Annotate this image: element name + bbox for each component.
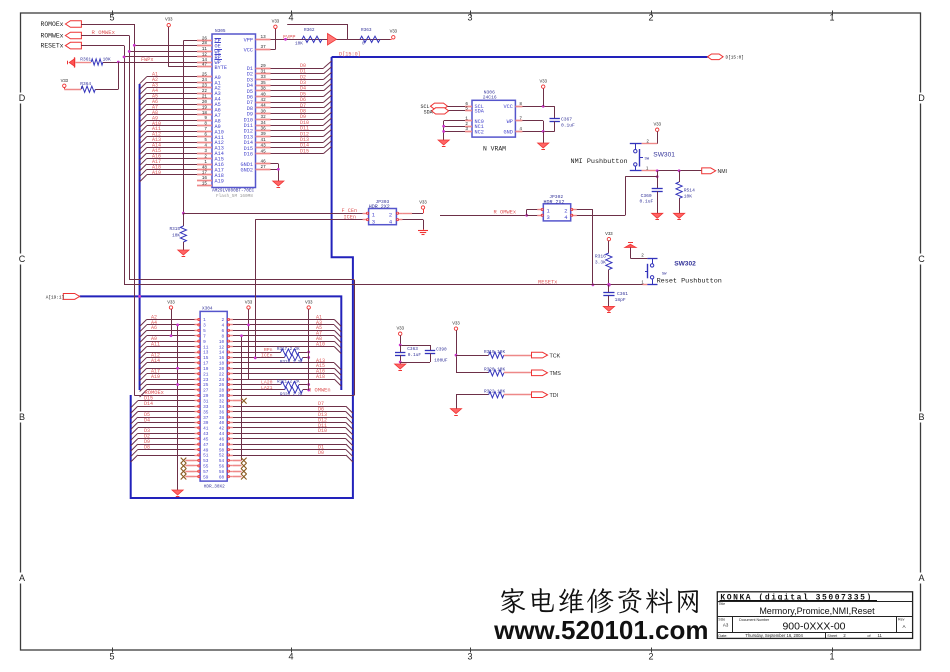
svg-text:C: C <box>19 254 26 264</box>
svg-text:R316: R316 <box>595 254 606 260</box>
svg-text:Sheet: Sheet <box>827 634 838 638</box>
svg-text:31: 31 <box>203 400 209 405</box>
svg-text:9: 9 <box>203 340 206 345</box>
svg-text:R362: R362 <box>304 28 315 33</box>
svg-text:41: 41 <box>203 427 209 432</box>
svg-text:R319 10K: R319 10K <box>484 350 505 355</box>
svg-text:10K: 10K <box>103 57 111 63</box>
svg-text:SDA: SDA <box>424 110 433 116</box>
svg-text:C363: C363 <box>407 347 418 352</box>
svg-text:ICEn: ICEn <box>261 352 273 358</box>
svg-text:5: 5 <box>465 106 468 111</box>
svg-text:VPP: VPP <box>244 37 253 43</box>
svg-text:24: 24 <box>202 78 208 83</box>
svg-text:8: 8 <box>519 102 522 107</box>
svg-text:49: 49 <box>203 448 209 453</box>
svg-text:15: 15 <box>203 356 209 361</box>
svg-text:R514: R514 <box>684 187 695 193</box>
svg-text:C: C <box>918 254 925 264</box>
svg-text:SW302: SW302 <box>674 260 696 267</box>
svg-text:N306: N306 <box>484 90 495 96</box>
svg-text:VCC: VCC <box>244 47 253 53</box>
svg-text:HDR_2X2: HDR_2X2 <box>369 204 390 210</box>
svg-text:51: 51 <box>203 454 209 459</box>
svg-text:5: 5 <box>204 138 207 143</box>
svg-text:V33: V33 <box>653 122 661 127</box>
svg-text:R317 2.2K: R317 2.2K <box>277 348 300 352</box>
svg-text:FWPx: FWPx <box>141 57 153 63</box>
svg-text:45: 45 <box>261 149 267 154</box>
svg-text:48: 48 <box>219 443 225 448</box>
svg-text:5: 5 <box>109 652 114 662</box>
svg-text:C390: C390 <box>436 348 447 353</box>
svg-text:2: 2 <box>222 318 225 323</box>
svg-text:Thursday, September 16, 2004: Thursday, September 16, 2004 <box>745 633 803 638</box>
svg-text:A19: A19 <box>152 170 161 176</box>
svg-text:ROMWEx: ROMWEx <box>41 33 64 40</box>
svg-text:R363: R363 <box>361 28 372 33</box>
svg-text:R315: R315 <box>169 227 180 232</box>
svg-text:34: 34 <box>219 405 225 410</box>
svg-text:34: 34 <box>261 121 267 126</box>
svg-text:AM29LV800BT-70EC: AM29LV800BT-70EC <box>212 189 255 194</box>
svg-text:A19: A19 <box>215 178 224 184</box>
svg-text:0.1uF: 0.1uF <box>408 353 422 358</box>
svg-text:43: 43 <box>203 432 209 437</box>
svg-text:18pF: 18pF <box>615 297 626 303</box>
svg-text:Document Number: Document Number <box>739 618 770 622</box>
svg-text:40: 40 <box>219 421 225 426</box>
svg-text:58: 58 <box>219 470 225 475</box>
svg-text:27: 27 <box>203 389 209 394</box>
svg-text:22: 22 <box>219 372 225 377</box>
svg-text:1: 1 <box>204 160 207 165</box>
svg-text:6: 6 <box>222 329 225 334</box>
svg-text:SW: SW <box>645 157 650 161</box>
svg-text:V33: V33 <box>245 299 253 304</box>
svg-text:13: 13 <box>261 35 267 40</box>
svg-text:28: 28 <box>202 41 208 46</box>
svg-text:8: 8 <box>222 334 225 339</box>
svg-text:7: 7 <box>204 127 207 132</box>
svg-text:17: 17 <box>202 171 208 176</box>
svg-text:11: 11 <box>878 633 883 638</box>
svg-text:ROMOEx: ROMOEx <box>145 390 164 396</box>
svg-text:59: 59 <box>203 475 209 480</box>
svg-text:X304: X304 <box>202 306 213 311</box>
svg-text:28: 28 <box>219 389 225 394</box>
svg-text:HDR_2X2: HDR_2X2 <box>544 199 565 205</box>
svg-text:54: 54 <box>219 459 225 464</box>
svg-text:ROMOEx: ROMOEx <box>41 21 64 28</box>
svg-text:18: 18 <box>219 362 225 367</box>
svg-text:LA20: LA20 <box>261 379 273 385</box>
svg-text:D[15:0]: D[15:0] <box>339 52 361 58</box>
svg-text:NMI Pushbutton: NMI Pushbutton <box>571 158 628 166</box>
svg-text:11: 11 <box>202 47 208 52</box>
svg-text:NC2: NC2 <box>475 129 484 135</box>
svg-text:4: 4 <box>222 324 225 329</box>
svg-text:Mermory,Promice,NMI,Reset: Mermory,Promice,NMI,Reset <box>759 606 875 616</box>
svg-text:29: 29 <box>261 64 267 69</box>
svg-text:R318 2.2K: R318 2.2K <box>280 361 303 365</box>
svg-text:24C16: 24C16 <box>483 95 497 101</box>
svg-text:D[15:0]: D[15:0] <box>726 56 744 61</box>
svg-text:HDR_30X2: HDR_30X2 <box>204 485 225 490</box>
svg-text:R OMWEn: R OMWEn <box>308 387 331 393</box>
svg-text:36: 36 <box>261 127 267 132</box>
svg-text:TMS: TMS <box>550 371 562 377</box>
svg-text:V33: V33 <box>272 18 280 23</box>
svg-text:0.1uF: 0.1uF <box>561 122 575 128</box>
svg-text:GND: GND <box>504 129 513 135</box>
svg-text:WP: WP <box>507 119 513 125</box>
svg-text:43: 43 <box>261 144 267 149</box>
svg-text:3: 3 <box>203 324 206 329</box>
svg-text:B: B <box>918 412 924 422</box>
svg-text:D15: D15 <box>300 148 309 154</box>
svg-text:37: 37 <box>203 416 209 421</box>
svg-text:N305: N305 <box>215 29 226 34</box>
svg-text:23: 23 <box>202 84 208 89</box>
svg-text:5: 5 <box>203 329 206 334</box>
svg-text:A3: A3 <box>723 623 729 628</box>
svg-text:A14: A14 <box>151 358 160 364</box>
svg-text:20: 20 <box>202 100 208 105</box>
svg-text:C360: C360 <box>641 193 652 199</box>
svg-text:A11: A11 <box>151 342 160 348</box>
svg-text:1: 1 <box>203 318 206 323</box>
svg-text:46: 46 <box>219 437 225 442</box>
svg-text:11: 11 <box>203 345 209 350</box>
svg-text:16: 16 <box>202 176 208 181</box>
svg-text:V33: V33 <box>167 299 175 304</box>
svg-text:47: 47 <box>202 63 208 68</box>
svg-text:3.3K: 3.3K <box>595 260 606 266</box>
svg-text:N VRAM: N VRAM <box>483 145 506 152</box>
svg-text:V33: V33 <box>605 231 613 236</box>
svg-text:47: 47 <box>203 443 209 448</box>
svg-text:SW301: SW301 <box>653 151 675 158</box>
svg-text:38: 38 <box>261 87 267 92</box>
svg-text:B: B <box>19 412 25 422</box>
svg-text:4: 4 <box>204 143 207 148</box>
svg-text:GND2: GND2 <box>241 167 253 173</box>
svg-text:RESETx: RESETx <box>538 280 557 286</box>
svg-text:4: 4 <box>288 652 293 662</box>
svg-text:18: 18 <box>202 111 208 116</box>
svg-text:TDI: TDI <box>550 393 559 399</box>
svg-text:RESETx: RESETx <box>41 43 64 50</box>
svg-text:D14: D14 <box>144 401 153 407</box>
svg-text:R OMWEx: R OMWEx <box>494 210 517 216</box>
svg-text:D8: D8 <box>144 444 150 450</box>
svg-text:7: 7 <box>203 334 206 339</box>
svg-text:50: 50 <box>219 448 225 453</box>
svg-text:39: 39 <box>261 132 267 137</box>
svg-text:33: 33 <box>203 405 209 410</box>
svg-text:15: 15 <box>202 182 208 187</box>
svg-text:44: 44 <box>261 104 267 109</box>
svg-text:12: 12 <box>219 345 225 350</box>
svg-text:LA21: LA21 <box>261 385 273 391</box>
svg-text:44: 44 <box>219 432 225 437</box>
svg-text:52: 52 <box>219 454 225 459</box>
svg-text:D: D <box>19 93 26 103</box>
svg-text:30: 30 <box>261 109 267 114</box>
svg-text:42: 42 <box>261 98 267 103</box>
svg-text:10K: 10K <box>295 42 303 47</box>
svg-text:V33: V33 <box>165 17 173 22</box>
svg-text:SW: SW <box>662 272 667 276</box>
svg-text:20: 20 <box>219 367 225 372</box>
svg-text:2: 2 <box>648 652 653 662</box>
svg-text:1: 1 <box>829 652 834 662</box>
svg-text:V33: V33 <box>419 199 427 204</box>
svg-text:32: 32 <box>261 115 267 120</box>
svg-text:10: 10 <box>219 340 225 345</box>
svg-text:R320 2.2K: R320 2.2K <box>280 393 303 397</box>
svg-text:OE: OE <box>215 43 221 49</box>
svg-text:VCC: VCC <box>504 104 513 110</box>
svg-text:A: A <box>918 573 924 583</box>
svg-text:24: 24 <box>219 378 225 383</box>
svg-text:900-0XXX-00: 900-0XXX-00 <box>782 621 845 633</box>
svg-text:38: 38 <box>219 416 225 421</box>
svg-text:48: 48 <box>202 165 208 170</box>
svg-text:29: 29 <box>203 394 209 399</box>
svg-text:10K: 10K <box>684 193 693 199</box>
svg-text:0: 0 <box>81 85 84 91</box>
svg-text:25: 25 <box>202 73 208 78</box>
svg-text:57: 57 <box>203 470 209 475</box>
svg-text:30: 30 <box>219 394 225 399</box>
svg-text:R322 10K: R322 10K <box>484 390 505 395</box>
svg-text:35: 35 <box>261 81 267 86</box>
svg-text:42: 42 <box>219 427 225 432</box>
svg-text:3: 3 <box>547 214 550 221</box>
svg-text:TCK: TCK <box>550 353 561 359</box>
svg-text:60: 60 <box>219 475 225 480</box>
svg-text:0: 0 <box>362 42 365 47</box>
svg-text:35: 35 <box>203 410 209 415</box>
svg-text:21: 21 <box>203 372 209 377</box>
svg-text:D4: D4 <box>144 417 150 423</box>
svg-text:36: 36 <box>219 410 225 415</box>
svg-text:40: 40 <box>261 92 267 97</box>
svg-text:Flash_5M 160M8: Flash_5M 160M8 <box>216 194 253 199</box>
svg-text:R361: R361 <box>80 57 91 63</box>
svg-text:C361: C361 <box>617 291 628 297</box>
svg-text:37: 37 <box>261 45 267 50</box>
svg-text:1: 1 <box>465 117 468 122</box>
svg-text:A19: A19 <box>151 374 160 380</box>
svg-text:22: 22 <box>202 89 208 94</box>
svg-text:3: 3 <box>204 149 207 154</box>
svg-text:A: A <box>19 573 25 583</box>
svg-text:27: 27 <box>261 165 267 170</box>
svg-text:R320 10K: R320 10K <box>484 368 505 373</box>
svg-text:RPn: RPn <box>264 347 273 353</box>
svg-text:V33: V33 <box>61 78 69 83</box>
svg-text:www.520101.com: www.520101.com <box>493 615 708 645</box>
svg-text:55: 55 <box>203 465 209 470</box>
svg-text:46: 46 <box>261 160 267 165</box>
svg-text:SDA: SDA <box>475 109 485 115</box>
svg-text:0.1uF: 0.1uF <box>640 199 654 205</box>
svg-text:D: D <box>918 93 925 103</box>
svg-text:Size: Size <box>718 617 725 621</box>
svg-text:Rev: Rev <box>898 617 905 621</box>
svg-text:C367: C367 <box>561 117 572 123</box>
svg-text:Date:: Date: <box>718 634 727 638</box>
svg-text:NMI: NMI <box>718 169 728 175</box>
svg-text:41: 41 <box>261 138 267 143</box>
svg-text:3: 3 <box>465 127 468 132</box>
svg-text:56: 56 <box>219 465 225 470</box>
svg-text:21: 21 <box>202 94 208 99</box>
svg-text:V33: V33 <box>390 28 398 33</box>
svg-text:Title: Title <box>719 602 726 606</box>
svg-text:23: 23 <box>203 378 209 383</box>
svg-text:3: 3 <box>372 218 375 225</box>
svg-text:A[19:1]: A[19:1] <box>46 295 64 300</box>
svg-text:3: 3 <box>467 652 472 662</box>
svg-text:25: 25 <box>203 383 209 388</box>
svg-text:BYTE: BYTE <box>215 65 227 71</box>
svg-text:V33: V33 <box>305 299 313 304</box>
svg-text:R321 2.2K: R321 2.2K <box>277 381 300 385</box>
svg-text:32: 32 <box>219 400 225 405</box>
svg-text:A10: A10 <box>316 342 325 348</box>
svg-text:2: 2 <box>204 154 207 159</box>
svg-text:V33: V33 <box>539 78 547 83</box>
svg-text:R OMWEx: R OMWEx <box>92 29 116 36</box>
svg-text:19: 19 <box>203 367 209 372</box>
svg-text:45: 45 <box>203 437 209 442</box>
svg-text:9: 9 <box>204 116 207 121</box>
svg-text:17: 17 <box>203 362 209 367</box>
svg-text:D10: D10 <box>318 428 327 434</box>
svg-text:7: 7 <box>519 117 522 122</box>
svg-text:10K: 10K <box>172 234 180 239</box>
svg-text:100UF: 100UF <box>434 359 448 364</box>
svg-text:39: 39 <box>203 421 209 426</box>
svg-text:31: 31 <box>261 70 267 75</box>
svg-text:8: 8 <box>204 122 207 127</box>
svg-text:19: 19 <box>202 105 208 110</box>
svg-text:26: 26 <box>219 383 225 388</box>
svg-text:Reset Pushbutton: Reset Pushbutton <box>657 277 722 285</box>
svg-text:D0: D0 <box>318 450 324 456</box>
svg-text:F CEn: F CEn <box>342 208 358 214</box>
svg-text:6: 6 <box>204 133 207 138</box>
svg-text:14: 14 <box>219 351 225 356</box>
svg-text:13: 13 <box>203 351 209 356</box>
svg-text:53: 53 <box>203 459 209 464</box>
svg-text:16: 16 <box>219 356 225 361</box>
svg-text:V33: V33 <box>452 320 460 325</box>
svg-text:D16: D16 <box>244 152 253 158</box>
svg-text:4: 4 <box>519 127 522 132</box>
svg-text:33: 33 <box>261 75 267 80</box>
svg-text:A18: A18 <box>316 374 325 380</box>
svg-text:A6: A6 <box>151 325 157 331</box>
svg-text:V33: V33 <box>396 326 404 331</box>
